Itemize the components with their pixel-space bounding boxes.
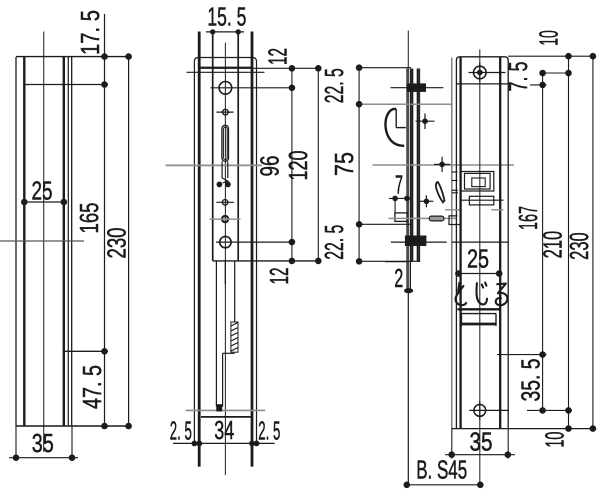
view2 case right edge (237, 32, 239, 261)
view1 dim 35 ext right (71, 426, 73, 461)
view2 thick jamb left (198, 32, 201, 467)
view2 lip line top (187, 71, 265, 73)
view3 clamp bottom line (391, 241, 447, 243)
view4 line under screw (456, 83, 508, 85)
svg-text:22. 5: 22. 5 (319, 225, 349, 260)
view4 center line (479, 50, 481, 485)
view1 right edge (71, 57, 73, 426)
svg-text:25: 25 (467, 244, 489, 274)
view2 axis (224, 43, 226, 475)
view2 small hole 1 (216, 109, 233, 115)
view1 line 17.5 (24, 84, 108, 86)
view2 lip line bottom (186, 409, 266, 411)
view1 horizontal centerline (0, 240, 84, 242)
view2 rod below slot (222, 161, 228, 183)
view3 plate edge left (406, 69, 408, 291)
view2 centerline horizontal (166, 164, 263, 166)
view3 dim 7 (389, 169, 411, 213)
view3 cross marker 1 (416, 114, 435, 130)
view3 dim 2 (385, 262, 413, 294)
view3 ref bottom 261 (359, 260, 420, 262)
view4 dim 35 (445, 427, 515, 459)
view3 cross marker 3 (420, 195, 434, 207)
view4 outer gray left (451, 58, 453, 429)
view2 small hole 2 (216, 200, 233, 205)
dim text 10 top (534, 30, 564, 46)
dim text 230 v1 (102, 228, 132, 259)
view3 capsule (429, 216, 444, 221)
svg-text:25: 25 (32, 175, 53, 205)
view4 screw ref ext (539, 70, 572, 77)
view3 plate edge right (409, 69, 411, 291)
dim text 230 v4 (564, 232, 594, 260)
view4 screw bottom ref ext (527, 407, 572, 414)
view3 axis leader (407, 31, 409, 291)
view4 dim line 210 (568, 56, 570, 428)
svg-text:10: 10 (540, 432, 570, 448)
svg-text:7: 7 (395, 169, 403, 199)
svg-text:35: 35 (32, 428, 54, 458)
view2 screw bottom cross line (216, 241, 294, 243)
view4 dim 35 ext (452, 429, 508, 459)
view4 tojiru text (456, 283, 508, 306)
view2 rod left (215, 261, 217, 407)
view1 dim 35 ext left (15, 426, 17, 461)
view4 notch ticks upper (452, 172, 458, 181)
svg-text:B. S45: B. S45 (416, 455, 467, 485)
svg-text:10: 10 (534, 30, 564, 46)
view3 dim line left (356, 64, 363, 264)
view2 case top step (199, 66, 252, 68)
view2 bottom dim line (173, 441, 275, 447)
svg-text:230: 230 (102, 228, 132, 259)
view1 dim 35 (9, 428, 78, 461)
view4 dim line 167-355 (542, 73, 544, 410)
view4 top edge ext (508, 53, 596, 60)
view3 hook small (436, 182, 445, 202)
view1 inner thin line (67, 57, 69, 426)
view2 case left edge (212, 32, 214, 261)
view2 thick jamb right (251, 32, 254, 467)
view4 thick line right (499, 57, 501, 429)
view2 square hole (210, 216, 241, 223)
view4 hole2 line (461, 199, 504, 201)
svg-text:47. 5: 47. 5 (77, 365, 107, 409)
view4 hole1 inner (472, 178, 485, 187)
dim text 96 (255, 156, 285, 177)
svg-text:165: 165 (74, 203, 104, 234)
dim text 47.5 (77, 365, 107, 409)
dim BS45 (404, 455, 484, 489)
svg-text:120: 120 (283, 151, 313, 181)
dim text 22.5 top (319, 68, 349, 103)
view4 line 242 (452, 241, 508, 243)
view2 rod center stub (224, 261, 226, 284)
dim text 34 (214, 415, 234, 445)
dim text 7.5 (503, 62, 533, 92)
dim text 75 (329, 152, 359, 176)
view2 top ref line 12 (199, 65, 321, 72)
view2 screw top cross line (211, 87, 295, 89)
svg-text:17. 5: 17. 5 (75, 10, 105, 55)
view4 dim line 230 (592, 56, 594, 428)
view3 hook big (385, 109, 405, 146)
svg-text:167: 167 (513, 206, 543, 230)
svg-text:2. 5: 2. 5 (258, 416, 280, 446)
view4 hole1 outer (461, 172, 494, 192)
svg-text:35. 5: 35. 5 (516, 359, 546, 402)
view4 hole1 mid (465, 173, 491, 189)
view2 slot outer (222, 125, 229, 161)
view2 dim dots 96 12 (289, 85, 322, 265)
view2 rod end blob (216, 404, 222, 411)
view2 case bottom (213, 260, 322, 262)
view3 bar left (411, 69, 413, 262)
view4 bump left (449, 216, 460, 225)
dim text 210 (538, 231, 568, 259)
dim text 17.5 (75, 10, 105, 55)
dim text 22.5 bottom (319, 225, 349, 260)
dim text 12 bottom (264, 268, 294, 285)
view4 screw bottom cross (469, 401, 509, 420)
dim text 10 bottom (540, 432, 570, 448)
svg-text:2. 5: 2. 5 (170, 416, 192, 446)
dim text 2.5 right (258, 416, 280, 446)
dim text 2.5 left (170, 416, 192, 446)
dim text 35.5 (516, 359, 546, 402)
svg-text:96: 96 (255, 156, 285, 177)
view4 dim 25 (455, 244, 502, 277)
view1 left edge (15, 57, 17, 426)
view1 inner thick line right (63, 57, 65, 426)
svg-text:7. 5: 7. 5 (503, 62, 533, 92)
view4 notch ticks mid (452, 190, 458, 193)
view2 slot inner (223, 127, 227, 159)
svg-text:22. 5: 22. 5 (319, 68, 349, 103)
view4 ref 7.5 ext (530, 82, 547, 89)
svg-text:75: 75 (329, 152, 359, 176)
view4 pocket box (461, 314, 496, 326)
view2 dim line 120 (317, 68, 319, 261)
dim text 12 top (263, 48, 293, 65)
view2 pivot dots (217, 182, 231, 188)
view2 spring hatch (231, 322, 238, 352)
view2 screw hole top (219, 82, 232, 95)
view2 screw hole bottom (220, 236, 231, 247)
view3 ref 104.5 long (359, 103, 452, 105)
view3 clamp top line (391, 87, 444, 89)
view4 screw top (474, 66, 487, 79)
svg-text:12: 12 (263, 48, 293, 65)
view3 clamp block bottom (405, 236, 427, 247)
view1 bottom edge + ext (16, 425, 132, 427)
view2 dim line 12-96-12 (291, 68, 293, 261)
view4 screw bottom (474, 405, 486, 417)
view3 small rect 7 (395, 213, 407, 222)
view3 gray line 218 (389, 217, 458, 219)
view4 plate outline (456, 57, 508, 429)
view2 profile outline rounded (194, 58, 256, 444)
dim text 165 (74, 203, 104, 234)
view3 centerline horizontal (373, 164, 515, 166)
view1 line 47.5 (64, 350, 108, 352)
view1 dim line 230 (125, 53, 132, 429)
svg-text:210: 210 (538, 231, 568, 259)
view2 dim 15.5 (206, 1, 246, 34)
view2 rod right upper (234, 261, 236, 322)
view4 ref 35.5 top (497, 351, 547, 358)
view1 inner thick line left (23, 57, 25, 426)
view4 gray ticks 210 (445, 209, 504, 211)
view2 rod step (223, 352, 235, 354)
dim text 120 (283, 151, 313, 181)
view4 screw top cross (469, 62, 506, 82)
svg-text:15. 5: 15. 5 (207, 1, 246, 31)
view2 rod left lower (222, 353, 224, 406)
view1 centerline vertical (43, 32, 45, 453)
view3 bar right (418, 69, 420, 262)
view1 dim line 165/17.5/47.5 (101, 14, 108, 429)
svg-text:230: 230 (564, 232, 594, 260)
view1 dim 25 (21, 175, 67, 205)
view4 bottom edge (452, 425, 596, 432)
view4 pocket lip (458, 308, 500, 310)
svg-text:34: 34 (214, 415, 234, 445)
view4 thick line left (459, 57, 461, 429)
view4 hole2 outer (469, 196, 493, 205)
svg-text:35: 35 (470, 427, 493, 457)
view3 leader to BS45 (407, 291, 409, 485)
view2 bottom cap (201, 416, 251, 418)
dim text 167 (513, 206, 543, 230)
svg-text:2: 2 (394, 263, 403, 293)
view3 clamp block top (408, 83, 427, 92)
view3 cross marker 2 (434, 157, 450, 172)
view1 top edge + ext (16, 56, 132, 58)
svg-text:12: 12 (264, 268, 294, 285)
view3 ref 22.5 top (359, 67, 411, 69)
view3 ref 22.5b top (359, 223, 413, 225)
